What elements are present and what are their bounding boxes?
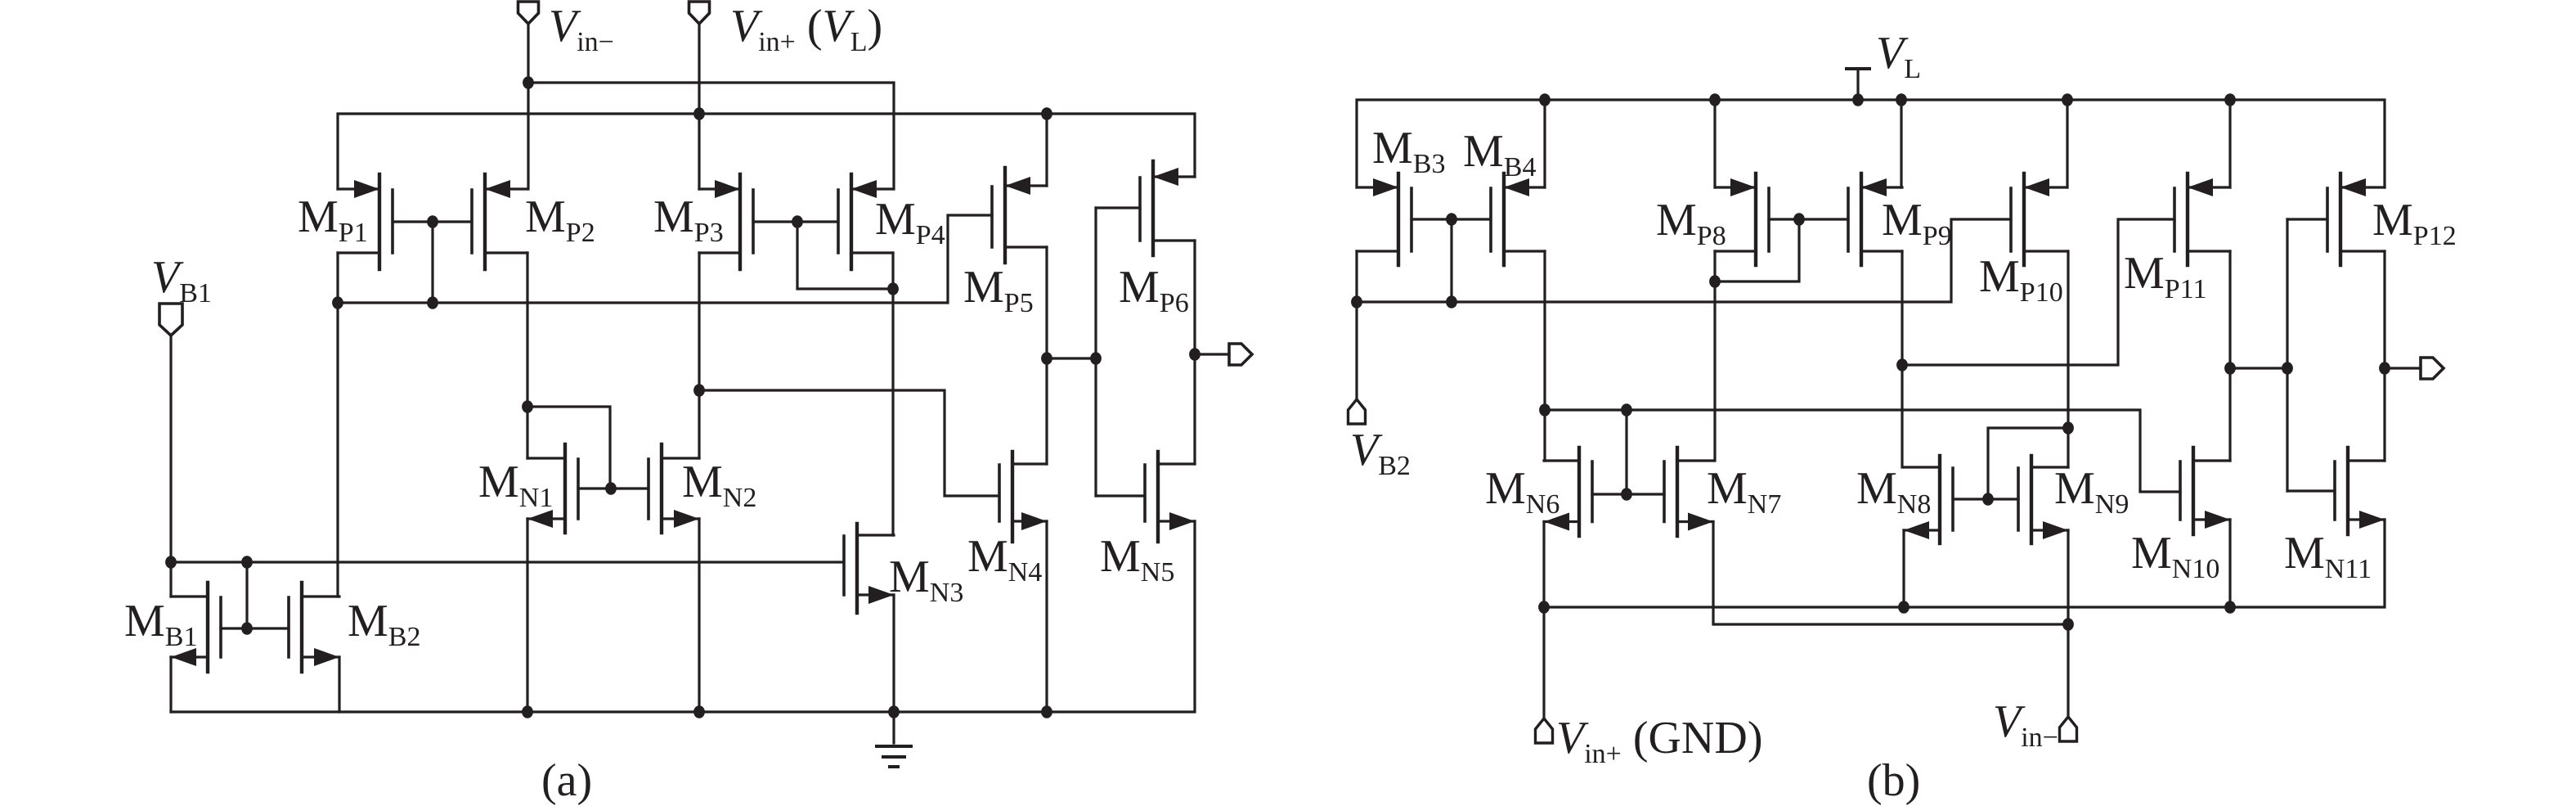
svg-text:(b): (b) bbox=[1867, 755, 1920, 806]
svg-text:(a): (a) bbox=[541, 755, 592, 806]
